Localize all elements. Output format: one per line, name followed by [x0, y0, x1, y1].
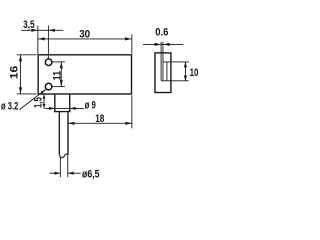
leader ø 3.2 [20, 89, 46, 109]
break continuation / extension line right of ø6,5 [67, 156, 69, 178]
side view inner element top line / extension for 10 [163, 61, 189, 63]
flange ø9 outline [55, 94, 70, 111]
front view housing outline [38, 55, 131, 94]
side view housing outline [155, 53, 171, 93]
svg-text:ø 3.2: ø 3.2 [1, 100, 18, 112]
side view inner element right edge [166, 62, 168, 81]
hole top ø3.2 [45, 59, 52, 66]
dimension 10 [184, 62, 187, 81]
dimension ø 9 [44, 107, 84, 110]
svg-text:16: 16 [9, 66, 21, 80]
break continuation / extension line left of ø6,5 [59, 157, 61, 178]
svg-text:3,5: 3,5 [23, 19, 35, 31]
stud shaft right edge [67, 112, 69, 155]
dimension 1,5 [43, 94, 46, 108]
dimension 3,5 [21, 26, 63, 59]
stud shaft left edge [58, 112, 60, 155]
dimension 16 [17, 55, 37, 94]
svg-text:ø 9: ø 9 [85, 99, 96, 111]
side view inner element bottom line / extension for 10 [161, 80, 189, 82]
dimension ø6,5 [49, 172, 80, 175]
svg-text:10: 10 [190, 67, 199, 79]
svg-text:ø6,5: ø6,5 [82, 168, 100, 180]
svg-text:11: 11 [52, 71, 64, 81]
break wave line [59, 154, 67, 158]
dimension 11 [52, 62, 65, 87]
dimension 30 [38, 34, 132, 53]
svg-text:18: 18 [95, 113, 104, 125]
dimension 18 [68, 95, 132, 128]
side view sensing plate line left [160, 42, 162, 81]
hole bottom ø3.2 [45, 83, 52, 90]
dimension 0.6 [143, 43, 183, 46]
svg-text:30: 30 [79, 28, 90, 40]
svg-text:1,5: 1,5 [33, 97, 45, 108]
svg-text:0.6: 0.6 [155, 27, 168, 39]
side view sensing plate line right [162, 42, 164, 81]
